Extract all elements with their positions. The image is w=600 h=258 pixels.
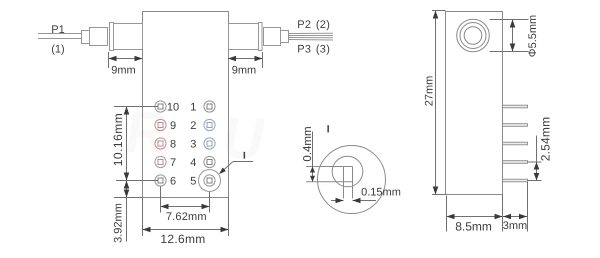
detail slot [306,167,353,199]
svg-text:(1): (1) [51,44,64,56]
dimension 3mm [503,182,528,232]
right ferrule cap [259,23,263,51]
left boot small [82,31,90,44]
svg-text:7.62mm: 7.62mm [166,211,207,223]
svg-text:P2 (2): P2 (2) [297,19,330,31]
svg-text:2: 2 [190,120,196,132]
dimension 9mm left [109,52,143,68]
svg-text:10: 10 [167,102,179,114]
svg-text:Φ5.5mm: Φ5.5mm [527,15,539,57]
dimension 27mm [432,11,446,195]
dimension 0.4mm [312,132,314,182]
dimension 12.6mm [143,198,229,237]
pin 3 [204,138,215,149]
svg-text:27mm: 27mm [424,76,436,107]
side view ferrule circles [457,19,490,52]
svg-text:P3 (3): P3 (3) [297,43,330,55]
svg-text:5: 5 [190,176,196,188]
svg-text:6: 6 [170,176,176,188]
svg-text:0.15mm: 0.15mm [361,187,401,199]
watermark [125,100,266,171]
dimension 9mm right [228,52,263,68]
right cylinder 9mm [229,24,259,50]
dimension 0.15mm [331,200,376,202]
svg-text:P1: P1 [51,24,64,36]
leader I to pin 5 [220,162,253,174]
pin 4 [204,156,215,167]
dimension 8.5mm [447,195,503,232]
pin 6 [155,175,166,186]
svg-text:R: R [125,100,167,165]
pin 7 [155,156,166,167]
svg-text:9: 9 [170,120,176,132]
svg-text:4: 4 [190,157,196,169]
pin 8 [155,138,166,149]
left ferrule cap [110,23,114,51]
svg-text:9mm: 9mm [111,65,135,77]
svg-text:7: 7 [170,157,176,169]
pin 9 [155,119,166,130]
fibers P2 P3 [289,33,334,40]
right boot large [264,28,281,46]
svg-text:1: 1 [190,102,196,114]
fiber P1 [38,34,82,39]
label I detail [327,125,329,132]
svg-text:3mm: 3mm [503,220,527,232]
svg-text:2.54mm: 2.54mm [539,117,553,162]
detail view inner circle [332,156,363,187]
svg-text:3.92mm: 3.92mm [113,203,125,243]
pin 1 [204,101,215,112]
svg-text:0.4mm: 0.4mm [302,126,314,161]
pin 5 detail ring [199,170,221,192]
detail view I big circle [318,146,386,214]
dimension 2.54mm [528,136,542,181]
svg-text:9mm: 9mm [232,65,256,77]
pin 2 [204,119,215,130]
left boot large [90,28,108,46]
side view body [446,12,503,195]
pin 10 [155,101,166,112]
pin 5 [204,175,215,186]
dimension 10.16mm [114,107,159,181]
svg-text:3: 3 [190,139,196,151]
right boot small [281,31,289,43]
svg-text:10.16mm: 10.16mm [111,113,125,167]
side pins [503,105,528,182]
svg-text:8: 8 [170,139,176,151]
svg-text:12.6mm: 12.6mm [160,232,205,246]
svg-text:8.5mm: 8.5mm [455,220,492,234]
left cylinder 9mm [114,24,143,50]
dimension phi 5.5mm [490,20,529,52]
pins front view [155,101,215,188]
dimension 3.92mm [114,181,143,242]
dimension 7.62mm [161,187,210,213]
front view body [143,12,229,198]
